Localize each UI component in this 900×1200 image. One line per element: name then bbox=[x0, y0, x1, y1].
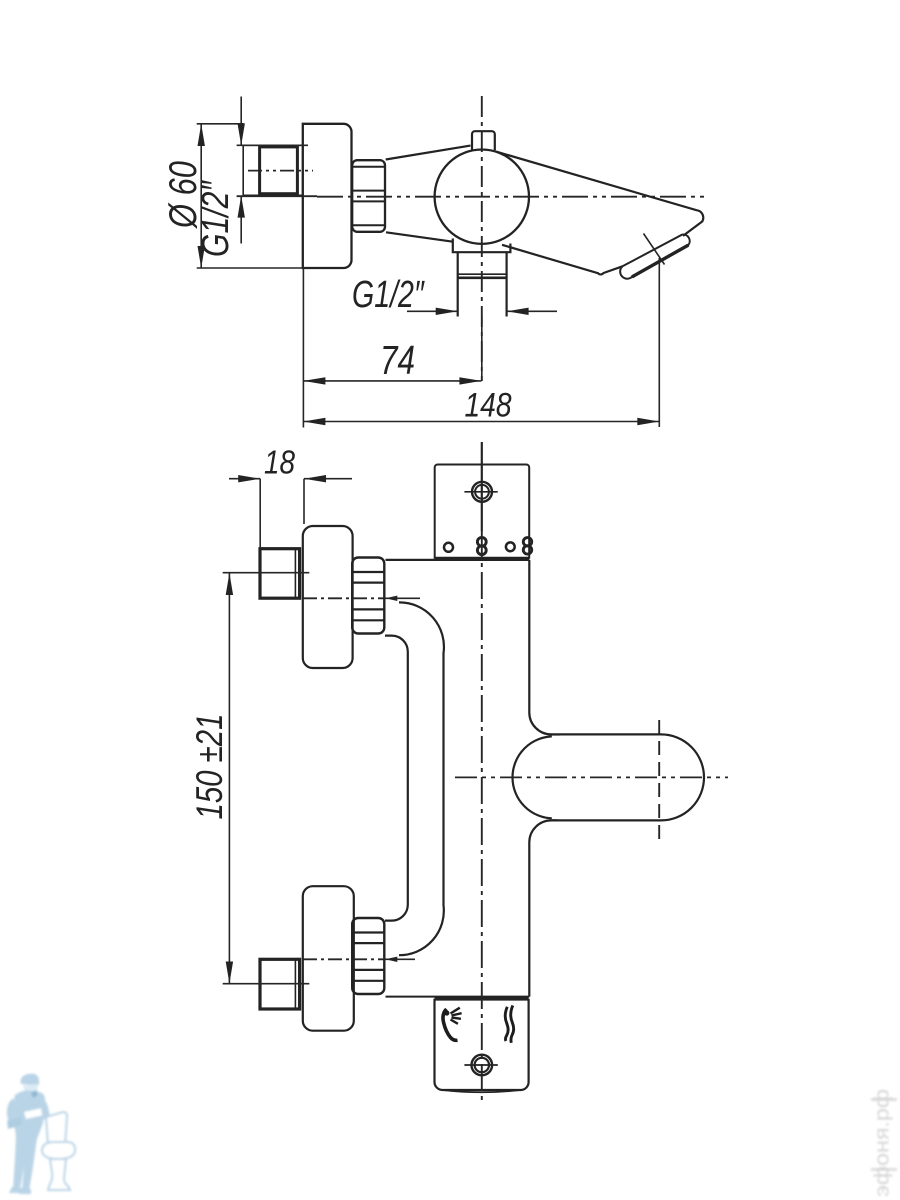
svg-text:74: 74 bbox=[380, 337, 415, 383]
svg-text:18: 18 bbox=[264, 445, 295, 482]
svg-text:G1/2″: G1/2″ bbox=[195, 180, 237, 257]
svg-text:G1/2″: G1/2″ bbox=[352, 274, 425, 316]
svg-text:150 ±21: 150 ±21 bbox=[189, 714, 230, 820]
svg-text:эфоня.рф: эфоня.рф bbox=[871, 1089, 894, 1197]
svg-text:148: 148 bbox=[465, 387, 512, 425]
